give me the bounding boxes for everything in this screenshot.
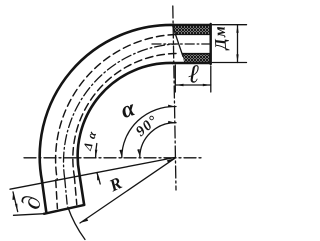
- 90 arc bottom arrow: [137, 149, 140, 157]
- vertical centerline through bend tangent: [173, 6, 176, 190]
- delta-alpha lower arc segment: [97, 173, 100, 184]
- label 90deg: [137, 116, 154, 137]
- d bottom arrow: [15, 204, 18, 212]
- angle 90 dimension arc: [140, 123, 176, 157]
- label Dm: [215, 27, 230, 50]
- pipe bend outer bore hidden dashed arc: [56, 35, 176, 181]
- dimension d line: [13, 192, 18, 212]
- label l: [189, 65, 199, 83]
- end face extension line: [14, 214, 45, 216]
- top straight pipe bore bottom line: [183, 53, 211, 55]
- lower pipe outer wall straight: [42, 181, 46, 212]
- d top arrow: [12, 192, 15, 200]
- dimension Dm top extension line: [213, 24, 247, 26]
- 90 arc top arrow: [168, 121, 176, 124]
- section boundary slant line: [173, 27, 183, 57]
- lower pipe bore dashed right: [74, 176, 77, 205]
- R arrow at center: [167, 158, 175, 163]
- dimension l left extension line: [174, 65, 176, 92]
- pipe bend centerline dash-dot arc: [64, 44, 176, 179]
- radius R dimension line: [80, 158, 176, 223]
- bend end radius line for delta-alpha: [10, 157, 176, 189]
- delta-alpha lower arrow: [97, 173, 100, 181]
- bottom wall hatched section band: [182, 54, 210, 62]
- top pipe horizontal centerline: [152, 43, 209, 45]
- top pipe end face: [209, 24, 211, 64]
- top straight pipe bore top line: [176, 33, 211, 35]
- dimension l left arrow: [176, 84, 184, 86]
- label delta-alpha: [84, 131, 96, 151]
- dimension Dm top arrow: [236, 25, 238, 33]
- top straight pipe outer top edge: [174, 24, 211, 26]
- pipe bend outer wall arc: [40, 25, 174, 181]
- lower pipe bore dashed left: [56, 180, 58, 209]
- top wall hatched section band: [173, 26, 210, 34]
- delta-alpha upper arrow: [95, 150, 98, 158]
- R arrow at arc: [80, 218, 88, 223]
- dimension Dm bottom extension line: [213, 62, 247, 64]
- top straight pipe outer bottom edge: [173, 62, 211, 64]
- lower pipe end face: [44, 205, 84, 214]
- lower pipe inner wall straight: [79, 174, 84, 204]
- dimension Dm bottom arrow: [236, 54, 238, 62]
- dimension l right extension line: [210, 66, 212, 92]
- alpha arc top arrow: [168, 105, 176, 108]
- label R: [110, 178, 123, 192]
- horizontal centerline through bend center: [24, 157, 204, 159]
- angle alpha dimension arc: [122, 106, 176, 157]
- dimension l line: [176, 84, 211, 86]
- alpha arc bottom arrow: [119, 150, 122, 158]
- dimension l right arrow: [203, 84, 211, 86]
- pipe bend inner bore hidden dashed arc: [73, 54, 176, 177]
- label d: [21, 196, 39, 209]
- centerline arc extension below pipe: [68, 207, 85, 240]
- delta-alpha upper arc segment: [96, 144, 97, 158]
- pipe bend inner wall arc: [78, 63, 173, 174]
- dimension Dm line: [237, 25, 239, 63]
- label alpha: [123, 104, 135, 117]
- lower pipe axis dash-dot: [65, 179, 68, 206]
